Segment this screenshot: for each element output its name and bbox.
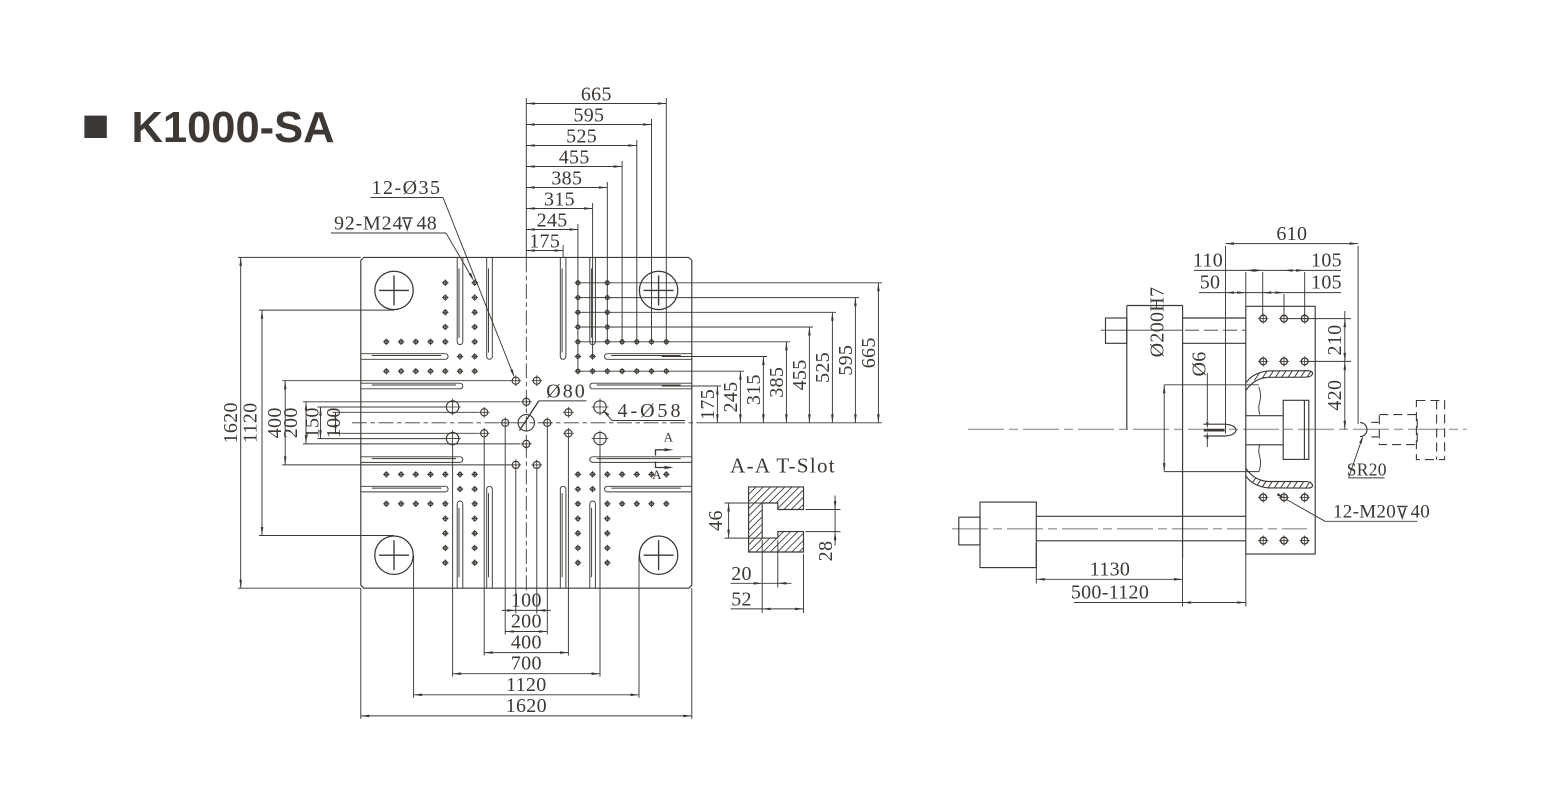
top ext line 385 [606, 182, 608, 342]
Ø35 hole at (200,-50) [563, 407, 574, 418]
left ext 1120 bottom [259, 535, 394, 537]
svg-text:525: 525 [812, 352, 834, 383]
svg-text:525: 525 [566, 125, 597, 147]
svg-text:175: 175 [697, 389, 719, 420]
svg-text:700: 700 [511, 653, 542, 675]
nozzle orifice Ø6 [1204, 429, 1225, 432]
tie-bar hole (left top) [375, 271, 413, 309]
label 12-M20 depth 40 with leader [1277, 493, 1430, 523]
left ext 1620 bottom [238, 587, 361, 589]
svg-text:1120: 1120 [506, 674, 546, 696]
bottom ext +810 [691, 588, 693, 719]
svg-text:315: 315 [544, 188, 575, 210]
bottom dimension 200 [505, 611, 547, 633]
svg-text:28: 28 [815, 541, 837, 562]
top ext line 175 [562, 245, 564, 257]
recess bottom break line [1259, 444, 1261, 472]
right dimension 245 [720, 371, 742, 423]
barrel band bottom [1183, 342, 1246, 344]
Ø35 hole at (0,100) [521, 438, 532, 449]
bottom ext +200 [567, 438, 569, 655]
Ø35 hole at (-100,0) [500, 417, 511, 428]
svg-text:A: A [652, 467, 662, 482]
T-slot horizontal at +315, bottom-left quadrant [361, 486, 448, 492]
Ø35 hole at (-50,200) [510, 460, 521, 471]
sprue seat [1246, 416, 1283, 445]
Ø58 hole at (350,75) [592, 430, 609, 447]
svg-text:50: 50 [1200, 272, 1221, 294]
top dimension 175 [526, 230, 563, 252]
svg-text:315: 315 [743, 374, 765, 405]
left ext 100 bottom [333, 432, 479, 434]
platen outline (front view, 1620x1620) [361, 257, 692, 588]
recess top hatched band [1246, 370, 1319, 391]
side ext col1 [1262, 272, 1264, 315]
bottom dimension 400 [484, 632, 568, 654]
svg-text:455: 455 [559, 146, 590, 168]
T-slot block with hatching [691, 487, 879, 552]
svg-text:175: 175 [529, 230, 560, 252]
left ext 150 top [318, 406, 446, 408]
label SR20 with leader [1347, 435, 1387, 479]
rear block [980, 502, 1036, 567]
side ext Ø200 bottom [1164, 471, 1259, 473]
svg-text:12-M20: 12-M20 [1333, 502, 1396, 523]
T-slot vertical at -175, bottom-left quadrant [487, 486, 493, 588]
svg-text:92-M24: 92-M24 [334, 213, 403, 235]
svg-text:Ø6: Ø6 [1189, 351, 1211, 376]
Ø35 hole at (0,-100) [521, 396, 532, 407]
bottom dimension 700 [453, 653, 600, 675]
bottom ext +50 [536, 470, 538, 614]
right ext line 525 [576, 311, 836, 313]
side dim 105 upper arrows [1284, 269, 1305, 272]
top dimension 455 [526, 146, 622, 168]
svg-text:105: 105 [1311, 250, 1342, 272]
label 4-Ø58 with leader [602, 400, 685, 422]
svg-text:A-A T-Slot: A-A T-Slot [730, 454, 836, 478]
T-slot horizontal at +315, bottom-right quadrant [605, 486, 692, 492]
side ext col3 [1304, 272, 1306, 315]
svg-text:Ø200H7: Ø200H7 [1147, 287, 1169, 358]
left ext 400 top [282, 380, 511, 382]
side ext row2 [1309, 360, 1351, 362]
T-slot horizontal at -315, top-left quadrant [361, 354, 448, 360]
right ext line 175 [662, 385, 721, 387]
svg-text:4-Ø58: 4-Ø58 [617, 400, 683, 422]
top dimension 525 [526, 125, 637, 147]
barrel centerline [1185, 329, 1246, 331]
svg-text:150: 150 [302, 407, 324, 438]
side dim 500-1120 [1071, 582, 1246, 604]
side ext Ø200 top [1164, 384, 1259, 386]
top dimension 665 [526, 83, 666, 105]
left dimension 200 [280, 402, 307, 444]
svg-text:455: 455 [789, 359, 811, 390]
side dim row 50/105 line [1199, 292, 1341, 294]
top ext line 315 [592, 203, 594, 357]
right dimension 385 [766, 342, 788, 423]
detail dim 28 [806, 496, 841, 562]
tie-bar hole (left bottom) [375, 536, 413, 574]
section arrow A (upper) [656, 430, 674, 456]
right ext line 455 [576, 326, 813, 328]
bottom dimension 100 [502, 589, 551, 611]
Ø35 hole at (-200,50) [479, 428, 490, 439]
svg-text:665: 665 [581, 83, 612, 105]
side dim 610 [1226, 223, 1359, 245]
nozzle body [1204, 424, 1237, 436]
svg-text:610: 610 [1276, 223, 1307, 245]
rear stub [959, 517, 980, 545]
top ext line 525 [636, 140, 638, 342]
svg-text:20: 20 [731, 563, 752, 585]
barrel stub centerline [1101, 329, 1183, 331]
svg-text:SR20: SR20 [1347, 460, 1387, 480]
T-slot vertical at +315, bottom-right quadrant [590, 501, 596, 588]
svg-text:1130: 1130 [1090, 558, 1130, 580]
dashed stub lines at nozzle contact [1371, 422, 1378, 437]
Ø58 hole at (350,-75) [592, 399, 609, 416]
right ext line 245 [576, 370, 744, 372]
top dimension 315 [526, 188, 592, 210]
left ext 100 top [333, 411, 479, 413]
side dim 420 [1324, 361, 1346, 429]
horizontal centerline of platen [352, 422, 697, 424]
section arrow A (lower) [652, 462, 673, 483]
label 92-M24 depth 48 with leader [331, 213, 474, 282]
right dimension 455 [789, 327, 811, 423]
svg-text:595: 595 [835, 345, 857, 376]
right ext line 595 [576, 297, 859, 299]
top dimension 245 [526, 209, 578, 231]
Ø58 hole at (-350,-75) [444, 399, 461, 416]
T-slot vertical at +315, top-right quadrant [590, 257, 596, 344]
bottom ext -50 [515, 470, 517, 614]
ejector bar top [1036, 515, 1246, 517]
barrel stub [1106, 318, 1127, 343]
left dimension 400 [264, 381, 287, 465]
T-slot vertical at -175, top-left quadrant [487, 257, 493, 359]
svg-text:48: 48 [417, 213, 438, 235]
92-M24 tapped hole grid, bottom-right quadrant [575, 471, 670, 566]
side dim 610 right ext [1357, 246, 1359, 424]
svg-text:210: 210 [1324, 325, 1346, 356]
svg-text:1120: 1120 [240, 403, 262, 443]
12-M20 bolt holes on plate [1258, 314, 1310, 546]
side view lower axis centerline [952, 528, 1307, 530]
locating ring block [1283, 400, 1309, 459]
svg-text:400: 400 [511, 632, 542, 654]
right dimension 175 [697, 386, 719, 423]
mold face reference line [1225, 246, 1227, 434]
left ext 400 bottom [282, 464, 511, 466]
top ext line 455 [621, 161, 623, 342]
left ext 200 bottom [303, 443, 521, 445]
side dim 105 lower arrows [1263, 291, 1284, 294]
bottom ext +560 [638, 555, 640, 698]
T-slot vertical at -315, top-left quadrant [457, 257, 463, 344]
barrel band top [1183, 317, 1246, 319]
92-M24 tapped hole grid, bottom-left quadrant [383, 471, 478, 566]
side dim 1130 [1036, 558, 1182, 580]
title marker square [84, 116, 106, 138]
left dimension 1120 [240, 310, 264, 535]
left ext 1620 top [238, 256, 361, 258]
svg-text:A: A [664, 430, 674, 445]
svg-text:1620: 1620 [506, 695, 547, 717]
right ext line 315 [662, 356, 767, 358]
label 12-Ø35 with leader [371, 177, 515, 378]
Ø35 hole at (200,50) [563, 428, 574, 439]
T-slot vertical at -315, bottom-left quadrant [457, 501, 463, 588]
92-M24 tapped hole grid, top-right quadrant [575, 280, 670, 375]
side view horizontal axis centerline [968, 428, 1467, 430]
svg-text:500-1120: 500-1120 [1071, 582, 1149, 604]
svg-text:385: 385 [551, 167, 582, 189]
svg-text:40: 40 [1411, 502, 1431, 523]
side ext carriage face [1182, 516, 1184, 606]
top ext line 595 [651, 119, 653, 342]
svg-text:200: 200 [280, 407, 302, 438]
svg-text:385: 385 [766, 367, 788, 398]
recess bottom hatched band [1246, 468, 1319, 489]
svg-text:K1000-SA: K1000-SA [132, 104, 335, 152]
label Ø80 with leader [520, 381, 587, 431]
T-slot vertical at +175, bottom-right quadrant [560, 486, 566, 588]
T-slot horizontal at -175, top-right quadrant [590, 383, 692, 389]
bottom ext +350 [599, 447, 601, 677]
tie-bar hole (right bottom) [639, 536, 677, 574]
side ext 1130 left [1035, 543, 1037, 584]
bottom ext +100 [546, 428, 548, 635]
Ø35 hole at (50,-200) [531, 375, 542, 386]
T-slot horizontal at -175, top-left quadrant [361, 383, 463, 389]
right dimension 525 [812, 312, 834, 423]
detail dim 20 [731, 540, 792, 587]
carriage block [1127, 306, 1183, 559]
side dim row 110/105 line [1194, 269, 1341, 271]
bottom dimension 1120 [414, 674, 639, 696]
svg-text:52: 52 [731, 589, 752, 611]
T-slot horizontal at +175, bottom-left quadrant [361, 457, 463, 463]
detail dim 52 [731, 554, 804, 613]
right dimension 665 [858, 283, 880, 423]
right dimension 595 [835, 298, 857, 423]
left dimension 100 [323, 407, 345, 438]
SR20 nozzle tip arc [1360, 423, 1367, 437]
recess top break line [1259, 387, 1261, 415]
top dimension 595 [526, 104, 651, 126]
svg-text:Ø80: Ø80 [546, 381, 586, 403]
svg-text:110: 110 [1193, 250, 1223, 272]
top dimension 385 [526, 167, 607, 189]
dashed mold outline small [1379, 415, 1417, 445]
left dimension 150 [302, 407, 324, 439]
right dimension 315 [743, 357, 765, 423]
left ext 1120 top [259, 309, 394, 311]
T-slot horizontal at +175, bottom-right quadrant [590, 457, 692, 463]
svg-text:46: 46 [705, 510, 727, 531]
right ext line 385 [576, 341, 790, 343]
detail dim 46 [705, 503, 763, 538]
bottom ext -810 [360, 588, 362, 719]
moving platen plate (side view) [1246, 306, 1315, 554]
left ext 200 top [303, 401, 521, 403]
bottom ext -560 [413, 555, 415, 698]
svg-text:200: 200 [511, 611, 542, 633]
Ø58 hole at (-350,75) [444, 430, 461, 447]
side dim 50 arrows [1226, 291, 1246, 294]
side ext plate edge [1245, 272, 1247, 306]
bottom dimension 1620 [361, 695, 692, 717]
center hole Ø80 [518, 415, 534, 431]
top ext line 665 [665, 98, 667, 342]
left dimension 1620 [220, 257, 242, 588]
T-slot horizontal at -315, top-right quadrant [605, 354, 692, 360]
T-slot vertical at +175, top-right quadrant [560, 257, 566, 359]
bottom ext -200 [483, 438, 485, 655]
ejector bar bottom [1036, 540, 1246, 542]
side ext row1 [1288, 318, 1351, 320]
bottom ext -100 [504, 428, 506, 635]
side ext col2 [1283, 294, 1285, 315]
Ø35 hole at (-50,-200) [510, 375, 521, 386]
side dim Ø6 [1189, 351, 1211, 447]
top ext line 245 [577, 224, 579, 371]
left ext 150 bottom [318, 438, 446, 440]
Ø35 hole at (-200,-50) [479, 407, 490, 418]
svg-text:665: 665 [858, 337, 880, 368]
dashed mold outline large [1416, 401, 1444, 460]
svg-text:245: 245 [537, 209, 568, 231]
tie-bar hole (right top) [639, 271, 677, 309]
svg-text:595: 595 [573, 104, 604, 126]
92-M24 tapped hole grid, top-left quadrant [383, 280, 478, 375]
side ext plate face bottom [1245, 554, 1247, 607]
right ext line 665 [576, 282, 882, 284]
Ø35 hole at (50,200) [531, 460, 542, 471]
vertical centerline of platen [525, 257, 527, 590]
side dim 210 [1324, 311, 1346, 361]
svg-text:420: 420 [1324, 380, 1346, 411]
svg-text:12-Ø35: 12-Ø35 [371, 177, 441, 199]
side dim Ø200H7 [1147, 287, 1169, 472]
svg-text:245: 245 [720, 382, 742, 413]
side dim 110 arrows [1246, 269, 1263, 272]
top dim chain common extension line at centerline [525, 98, 527, 257]
right chain baseline [697, 422, 882, 424]
Ø35 hole at (100,0) [542, 417, 553, 428]
svg-text:105: 105 [1311, 272, 1342, 294]
bottom ext -350 [452, 447, 454, 677]
